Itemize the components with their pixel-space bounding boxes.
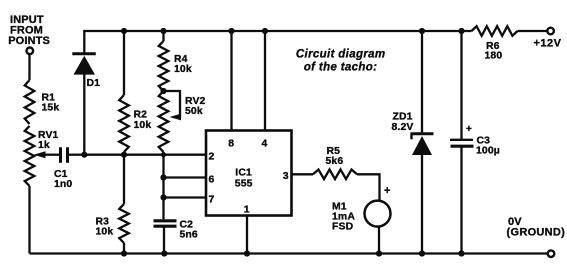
wire C3 bottom (460, 147, 462, 254)
wire pin 3 to R5 (292, 173, 314, 175)
wire meter to ground (378, 227, 380, 253)
wire top supply rail (84, 30, 471, 32)
wire D1 branch top (83, 30, 85, 53)
capacitor C1 (59, 147, 62, 163)
wire R2/R3 mid (123, 155, 125, 204)
svg-text:7: 7 (209, 195, 215, 206)
svg-text:+: + (384, 185, 391, 197)
svg-text:Circuit diagram: Circuit diagram (296, 49, 386, 61)
svg-text:8: 8 (228, 139, 234, 150)
svg-text:6: 6 (209, 175, 215, 186)
wire ZD1 bottom (421, 154, 423, 254)
wire C1 to node (69, 154, 84, 156)
svg-text:8.2V: 8.2V (392, 122, 414, 133)
svg-text:555: 555 (235, 179, 253, 190)
svg-text:50k: 50k (185, 106, 203, 117)
node junction at D1/C1 (81, 152, 87, 158)
svg-text:R4: R4 (174, 54, 188, 65)
svg-text:1k: 1k (38, 140, 50, 151)
svg-text:FSD: FSD (332, 222, 354, 233)
svg-text:2: 2 (209, 152, 215, 163)
svg-text:ZD1: ZD1 (393, 111, 413, 122)
op-amp/timer IC1 555 box (206, 131, 292, 216)
svg-text:15k: 15k (42, 103, 60, 114)
svg-text:10k: 10k (96, 227, 114, 238)
wire to pin 7 (164, 196, 207, 198)
svg-text:1: 1 (244, 205, 250, 216)
svg-text:D1: D1 (87, 78, 101, 89)
svg-text:100µ: 100µ (476, 145, 500, 156)
svg-text:+12V: +12V (534, 38, 562, 50)
svg-text:IC1: IC1 (235, 168, 252, 179)
capacitor C2 (154, 219, 177, 222)
wire pin 1 (246, 216, 248, 254)
svg-text:POINTS: POINTS (8, 35, 50, 47)
wire C3 top (460, 31, 462, 139)
wire pin 4 (264, 31, 266, 131)
zener diode ZD1 (411, 132, 434, 135)
node junction pin7 (160, 194, 166, 200)
RV2 wiper loop (164, 91, 181, 117)
node junction at R2 (121, 152, 127, 158)
wire RV2 bottom to C2 (162, 155, 164, 220)
resistor R3 (119, 204, 129, 243)
node junction at RV2 bottom (161, 152, 166, 157)
wire pin 8 (230, 31, 232, 131)
0V GROUND terminal (548, 250, 555, 257)
resistor R4 (159, 41, 169, 91)
potentiometer RV1 (25, 126, 35, 186)
svg-text:5k6: 5k6 (326, 156, 344, 167)
wire R4 top (162, 31, 164, 41)
resistor R5 (313, 170, 357, 180)
svg-text:10k: 10k (174, 64, 192, 75)
svg-text:3: 3 (283, 171, 289, 182)
wire to pin 6 (164, 176, 207, 178)
svg-text:1n0: 1n0 (54, 179, 72, 190)
svg-text:+: + (466, 124, 472, 135)
svg-text:of the tacho:: of the tacho: (304, 61, 378, 73)
wire D1 anode down to node (83, 74, 85, 155)
svg-text:4: 4 (262, 139, 268, 150)
resistor R2 (119, 95, 129, 152)
wire R2 top (123, 31, 125, 95)
wire C2 bottom (163, 227, 165, 254)
input terminal circle (27, 48, 34, 55)
node junction pin6 (160, 174, 166, 180)
svg-text:(GROUND): (GROUND) (507, 226, 566, 238)
wire bottom ground rail (30, 252, 548, 254)
resistor R1 (25, 80, 35, 124)
RV2 junction dot (160, 88, 166, 94)
potentiometer RV2 (159, 91, 169, 152)
svg-text:5n6: 5n6 (180, 229, 198, 240)
svg-text:180: 180 (485, 50, 503, 61)
capacitor C3 electrolytic (450, 139, 473, 141)
+12V terminal (547, 28, 554, 35)
diode D1 (72, 52, 96, 55)
svg-text:10k: 10k (134, 120, 152, 131)
wire ZD1 top (421, 31, 423, 133)
wire R5 to meter (357, 174, 380, 200)
wire left branch vertical (input to R1, RV1 to ground) (28, 54, 30, 80)
meter M1 circle (365, 201, 391, 227)
RV1 wiper arrow (44, 154, 59, 156)
resistor R6 (472, 26, 518, 36)
wire node row to IC pin 2 (84, 154, 206, 156)
